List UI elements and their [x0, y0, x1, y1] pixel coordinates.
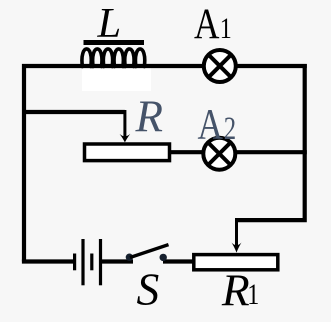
- svg-text:1: 1: [220, 12, 232, 45]
- wire middle branch: [24, 110, 125, 114]
- wire from lamp A2 to right side: [235, 150, 307, 154]
- wire switch to R1: [163, 259, 196, 263]
- svg-text:L: L: [97, 0, 122, 47]
- battery cell plate tall 2: [99, 239, 102, 285]
- svg-text:A: A: [194, 0, 220, 48]
- battery cell plate short 1: [73, 254, 76, 271]
- inductor L coil: [82, 49, 147, 67]
- inductor core bar: [84, 40, 145, 45]
- wire from R to lamp A2: [168, 150, 203, 154]
- wire top + left side: [24, 66, 307, 262]
- lamp A1: [204, 50, 236, 82]
- svg-text:S: S: [137, 264, 160, 315]
- wire right side + elbow to R1 slider: [235, 64, 305, 220]
- switch contact dot right: [160, 254, 167, 261]
- wire bottom left segment to battery: [22, 259, 73, 263]
- lamp A2: [203, 138, 235, 170]
- arrowhead onto R: [120, 134, 131, 143]
- svg-text:R: R: [135, 92, 164, 142]
- svg-text:A: A: [198, 100, 224, 148]
- battery cell plate short 2: [90, 254, 93, 271]
- rheostat R1 box: [194, 255, 278, 270]
- svg-text:1: 1: [247, 278, 259, 311]
- wire battery to switch: [101, 259, 133, 263]
- svg-text:R: R: [221, 264, 250, 315]
- battery cell plate tall 1: [81, 239, 84, 285]
- wire middle arrow stem down to R: [123, 110, 126, 139]
- arrowhead onto R1: [232, 243, 242, 253]
- switch contact dot left: [126, 254, 133, 261]
- rheostat R box: [85, 144, 170, 161]
- wire R1 arrow stem: [235, 218, 238, 249]
- white patch under inductor: [82, 66, 151, 91]
- svg-text:2: 2: [224, 111, 236, 147]
- switch lever: [130, 245, 169, 258]
